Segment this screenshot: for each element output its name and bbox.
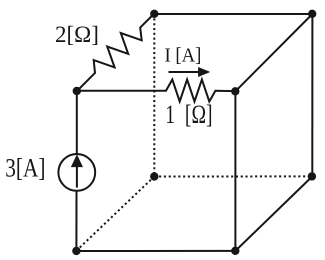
node BBR xyxy=(308,172,316,180)
wire: front right vertical FTR-FBR xyxy=(234,91,236,251)
node BTL xyxy=(150,10,158,18)
current source I1 circle xyxy=(58,154,95,191)
node FBL xyxy=(72,247,80,255)
wire: front left vertical lower segment current source to FBL xyxy=(75,192,77,251)
current direction arrowhead for I xyxy=(199,68,209,77)
resistor 1 ohm on front top edge FTL-FTR xyxy=(77,80,235,102)
wire: front bottom edge FBL-FBR xyxy=(76,250,235,252)
svg-text:3[A]: 3[A] xyxy=(5,155,45,183)
node FTR xyxy=(231,87,239,95)
svg-text:1 [Ω]: 1 [Ω] xyxy=(165,99,212,128)
wire: diagonal FTR-BTR xyxy=(235,14,312,91)
wire: hidden back left vertical BTL-BBL (dotted) xyxy=(153,14,155,177)
svg-text:I [A]: I [A] xyxy=(165,45,202,66)
node FBR xyxy=(231,247,239,255)
node BTR xyxy=(308,10,316,18)
wire: hidden back bottom edge BBL-BBR (dotted) xyxy=(154,175,312,177)
current direction arrow shaft for I xyxy=(169,71,201,73)
wire: top back edge BTL-BTR xyxy=(154,13,312,15)
wire: hidden diagonal BBL-FBL (dotted) xyxy=(76,177,154,251)
wire: front left vertical upper segment FTL to current source xyxy=(76,91,78,154)
wire: diagonal FBR-BBR xyxy=(235,176,312,251)
svg-text:2[Ω]: 2[Ω] xyxy=(55,22,99,47)
current source arrowhead xyxy=(72,156,83,167)
current source arrow shaft xyxy=(76,164,78,188)
node FTL xyxy=(73,87,81,95)
node BBL xyxy=(150,172,158,180)
resistor 2 ohm on diagonal FTL-BTL xyxy=(77,14,154,92)
wire: back right vertical BTR-BBR xyxy=(311,14,313,176)
